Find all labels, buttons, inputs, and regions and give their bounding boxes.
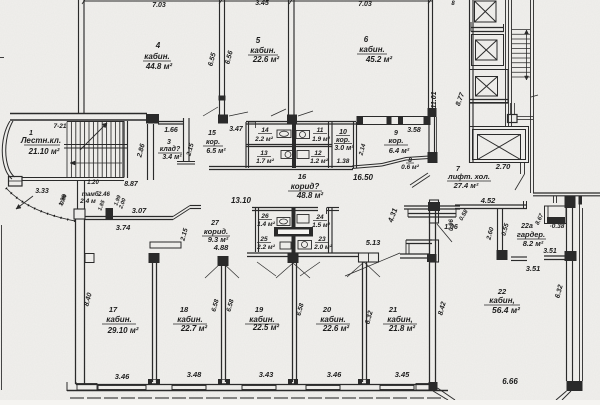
- svg-text:1.4 м²: 1.4 м²: [257, 221, 276, 228]
- svg-text:1.2 м²: 1.2 м²: [310, 158, 329, 165]
- svg-text:2.2 м²: 2.2 м²: [254, 136, 274, 143]
- svg-text:·0.38: ·0.38: [550, 223, 565, 230]
- svg-text:2.46: 2.46: [97, 192, 110, 198]
- svg-text:13: 13: [260, 150, 268, 157]
- svg-text:2.70: 2.70: [495, 162, 511, 171]
- svg-text:кабин.: кабин.: [250, 46, 276, 55]
- svg-text:56.4 м²: 56.4 м²: [492, 305, 521, 315]
- svg-text:корид?: корид?: [291, 182, 320, 191]
- svg-text:0.6 м²: 0.6 м²: [401, 164, 420, 171]
- svg-text:0.96: 0.96: [449, 219, 455, 231]
- svg-text:кор.: кор.: [206, 139, 220, 146]
- svg-text:2.2 м²: 2.2 м²: [256, 244, 276, 251]
- svg-text:22.7 м²: 22.7 м²: [180, 324, 208, 333]
- svg-text:3: 3: [167, 139, 171, 146]
- svg-text:6.4 м²: 6.4 м²: [389, 146, 410, 155]
- svg-text:6.5 м²: 6.5 м²: [206, 148, 226, 155]
- svg-text:кабин.: кабин.: [359, 45, 385, 54]
- svg-text:кабин.: кабин.: [320, 315, 346, 324]
- svg-text:13.10: 13.10: [231, 196, 252, 205]
- svg-text:20: 20: [322, 305, 332, 314]
- svg-text:21.10 м²: 21.10 м²: [28, 147, 60, 156]
- svg-text:8.2 м²: 8.2 м²: [523, 239, 544, 248]
- svg-text:48.8 м²: 48.8 м²: [296, 191, 324, 200]
- svg-text:8.87: 8.87: [124, 181, 139, 188]
- svg-text:кор.: кор.: [336, 137, 350, 144]
- svg-text:4: 4: [155, 41, 161, 50]
- svg-text:3.46: 3.46: [115, 372, 130, 381]
- svg-text:11.01: 11.01: [431, 91, 438, 108]
- svg-text:1.20: 1.20: [87, 180, 99, 186]
- svg-text:1.7 м²: 1.7 м²: [256, 158, 275, 165]
- svg-text:4.52: 4.52: [480, 196, 496, 205]
- svg-text:3.51: 3.51: [543, 248, 557, 255]
- svg-text:16.50: 16.50: [353, 173, 374, 182]
- svg-text:2.0 м²: 2.0 м²: [313, 244, 333, 251]
- svg-text:23: 23: [317, 236, 326, 243]
- svg-text:12: 12: [314, 150, 322, 157]
- svg-text:5: 5: [256, 36, 261, 45]
- svg-text:клад?: клад?: [160, 145, 181, 153]
- svg-text:3.33: 3.33: [35, 188, 49, 195]
- svg-text:7-21: 7-21: [53, 123, 66, 130]
- svg-text:3.58: 3.58: [407, 127, 421, 134]
- svg-text:1.66: 1.66: [164, 127, 178, 134]
- svg-text:1.38: 1.38: [337, 158, 350, 165]
- svg-text:22.6 м²: 22.6 м²: [322, 324, 350, 333]
- svg-text:26: 26: [260, 213, 269, 220]
- svg-text:16: 16: [298, 172, 307, 181]
- svg-text:5.13: 5.13: [366, 238, 381, 247]
- svg-text:22.5 м²: 22.5 м²: [252, 323, 280, 332]
- svg-text:3.45: 3.45: [255, 0, 269, 7]
- svg-text:25: 25: [259, 236, 268, 243]
- svg-text:17: 17: [109, 305, 118, 314]
- svg-text:24: 24: [315, 214, 324, 221]
- svg-text:27.4 м²: 27.4 м²: [453, 181, 479, 190]
- svg-text:7.03: 7.03: [358, 1, 372, 8]
- svg-text:22.6 м²: 22.6 м²: [252, 55, 280, 64]
- svg-text:21: 21: [388, 305, 397, 314]
- svg-text:21.8 м²: 21.8 м²: [388, 324, 416, 333]
- svg-text:2.4 м: 2.4 м: [79, 198, 96, 205]
- svg-text:29.10 м²: 29.10 м²: [107, 326, 139, 335]
- svg-text:22а: 22а: [520, 223, 533, 230]
- svg-text:15: 15: [208, 130, 216, 137]
- svg-text:3.4 м²: 3.4 м²: [162, 154, 182, 161]
- svg-text:11: 11: [317, 127, 324, 134]
- svg-text:22: 22: [497, 287, 507, 296]
- svg-text:кабин,: кабин,: [387, 315, 413, 324]
- svg-text:лифт. хол.: лифт. хол.: [447, 172, 490, 181]
- svg-text:кабин,: кабин,: [489, 296, 515, 305]
- svg-text:гардер.: гардер.: [517, 230, 545, 239]
- svg-text:44.8 м²: 44.8 м²: [145, 62, 173, 71]
- svg-text:кабин.: кабин.: [106, 315, 132, 324]
- svg-text:4.88: 4.88: [213, 243, 229, 252]
- svg-text:кабин.: кабин.: [144, 52, 170, 61]
- svg-text:6.66: 6.66: [502, 377, 518, 386]
- svg-text:3.07: 3.07: [132, 206, 147, 215]
- svg-text:3.74: 3.74: [116, 223, 131, 232]
- svg-text:3.45: 3.45: [395, 370, 410, 379]
- svg-text:3.46: 3.46: [327, 370, 342, 379]
- svg-text:10: 10: [339, 129, 347, 136]
- svg-text:3.47: 3.47: [229, 126, 244, 133]
- svg-text:14: 14: [261, 127, 269, 134]
- svg-text:6: 6: [364, 35, 369, 44]
- svg-text:3.0 м²: 3.0 м²: [334, 145, 354, 152]
- svg-text:7.03: 7.03: [152, 2, 166, 9]
- svg-text:3.48: 3.48: [187, 370, 202, 379]
- svg-text:1.5 м²: 1.5 м²: [312, 222, 331, 229]
- svg-text:45.2 м²: 45.2 м²: [365, 55, 393, 64]
- svg-text:3.43: 3.43: [259, 370, 274, 379]
- svg-text:19: 19: [255, 305, 264, 314]
- svg-text:3.51: 3.51: [526, 264, 541, 273]
- svg-text:18: 18: [180, 305, 189, 314]
- svg-text:кор.: кор.: [388, 136, 403, 145]
- svg-text:Лестн.кл.: Лестн.кл.: [20, 136, 61, 145]
- svg-text:27: 27: [210, 220, 220, 227]
- svg-text:кабин.: кабин.: [177, 315, 203, 324]
